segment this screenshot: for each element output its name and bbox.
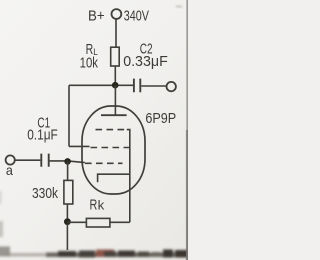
terminal a	[6, 155, 15, 164]
capacitor C2	[134, 79, 140, 93]
wire RL to plate node	[114, 66, 116, 83]
junction plate node	[112, 82, 119, 89]
wire bottom node to Rk	[67, 221, 86, 223]
bottom smudge band	[46, 253, 188, 258]
wire 330k to bottom node	[66, 204, 68, 219]
top-right tiny mark	[176, 6, 182, 8]
wire Rk to cathode lead	[110, 221, 130, 223]
terminal output	[167, 82, 176, 91]
grid g2 dashed	[91, 147, 131, 149]
svg-text:k: k	[98, 199, 105, 213]
tube envelope 6P9P	[82, 106, 145, 194]
svg-text:0.1μF: 0.1μF	[27, 127, 58, 144]
wire feedback left vertical	[68, 85, 70, 146]
svg-text:10k: 10k	[80, 54, 99, 71]
page background	[0, 0, 188, 260]
grid g1 dashed	[85, 162, 123, 164]
right page edge line	[186, 0, 188, 260]
g3 to cathode strap / cathode lead vertical	[127, 130, 130, 223]
svg-text:B+: B+	[88, 8, 105, 25]
wire grid node to 330k	[67, 161, 69, 180]
resistor 330k	[64, 180, 73, 204]
capacitor C1	[41, 154, 48, 167]
bottom-left corner block	[0, 247, 10, 257]
svg-text:6P9P: 6P9P	[145, 110, 176, 127]
junction grid node	[64, 158, 71, 165]
svg-text:0.33μF: 0.33μF	[123, 53, 168, 70]
svg-text:R: R	[90, 196, 98, 213]
wire g2 entry	[69, 145, 90, 147]
wire bottom node to ground edge	[66, 224, 68, 250]
svg-text:340V: 340V	[124, 7, 149, 24]
wire plate node horizontal	[69, 84, 133, 86]
svg-text:a: a	[6, 162, 13, 178]
terminal B+	[112, 9, 122, 19]
cathode	[98, 174, 130, 182]
left edge smudge	[0, 221, 3, 237]
resistor Rk	[86, 218, 110, 227]
scan artifacts	[0, 191, 188, 258]
wire a to C1	[15, 159, 40, 161]
grid g3 dashed	[96, 129, 127, 131]
anode plate bar	[101, 114, 127, 116]
wire B+ to RL	[115, 19, 117, 47]
svg-text:330k: 330k	[32, 185, 58, 202]
junction bottom node	[64, 218, 71, 225]
resistor RL	[111, 47, 120, 66]
wire C1 to grid node	[50, 161, 85, 163]
wire C2 to output	[141, 85, 166, 87]
anode lead	[114, 85, 116, 115]
